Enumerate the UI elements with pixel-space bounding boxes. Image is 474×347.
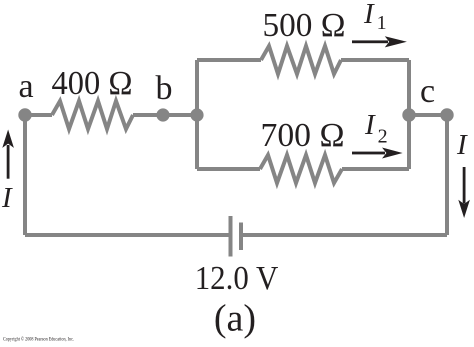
battery plate long (left) bbox=[229, 216, 233, 257]
svg-text:c: c bbox=[420, 73, 435, 110]
arrow up for I left bbox=[2, 130, 14, 179]
junction dot at parallel split bbox=[190, 108, 203, 121]
arrow down for I right bbox=[458, 167, 470, 218]
wire: node c to right dot bbox=[409, 113, 447, 117]
wire: top branch right lead bbox=[341, 58, 409, 62]
svg-text:b: b bbox=[156, 70, 173, 107]
wire: top branch left lead bbox=[197, 58, 261, 62]
wire: left vertical of parallel section bbox=[195, 60, 199, 169]
wire: left vertical from node a down to bottom rail bbox=[23, 115, 27, 235]
svg-text:(a): (a) bbox=[214, 298, 256, 340]
node b dot bbox=[156, 108, 169, 121]
wire: bottom rail right segment (right corner to battery) bbox=[241, 233, 447, 237]
svg-text:I: I bbox=[456, 129, 468, 161]
resistor R 500 ohm zigzag bbox=[261, 46, 341, 74]
svg-text:Copyright © 2008 Pearson Educa: Copyright © 2008 Pearson Education, Inc. bbox=[3, 337, 74, 343]
svg-text:I: I bbox=[1, 182, 13, 214]
node c dot bbox=[402, 108, 415, 121]
svg-text:12.0 V: 12.0 V bbox=[195, 260, 279, 297]
svg-text:500 Ω: 500 Ω bbox=[263, 7, 346, 44]
junction dot right of c bbox=[440, 108, 453, 121]
resistor R 700 ohm zigzag bbox=[260, 155, 342, 183]
wire: bottom branch right lead bbox=[342, 167, 409, 171]
arrow for I2 bbox=[352, 148, 403, 159]
svg-text:a: a bbox=[18, 68, 33, 105]
svg-text:700 Ω: 700 Ω bbox=[261, 117, 345, 154]
battery plate short (right) bbox=[239, 223, 243, 251]
wire: right vertical from right dot to bottom rail bbox=[445, 115, 449, 235]
wire: bottom branch left lead bbox=[197, 167, 260, 171]
wire: node a to resistor 400 bbox=[25, 113, 52, 117]
wire: resistor 400 to node b to parallel junction bbox=[133, 113, 197, 117]
node a dot bbox=[18, 108, 31, 121]
wire: right vertical of parallel section bbox=[407, 60, 411, 169]
wire: bottom rail left segment (battery to left corner) bbox=[25, 233, 230, 237]
svg-text:400 Ω: 400 Ω bbox=[52, 65, 133, 102]
resistor R 400 ohm zigzag bbox=[52, 101, 133, 129]
arrow for I1 bbox=[352, 36, 407, 47]
